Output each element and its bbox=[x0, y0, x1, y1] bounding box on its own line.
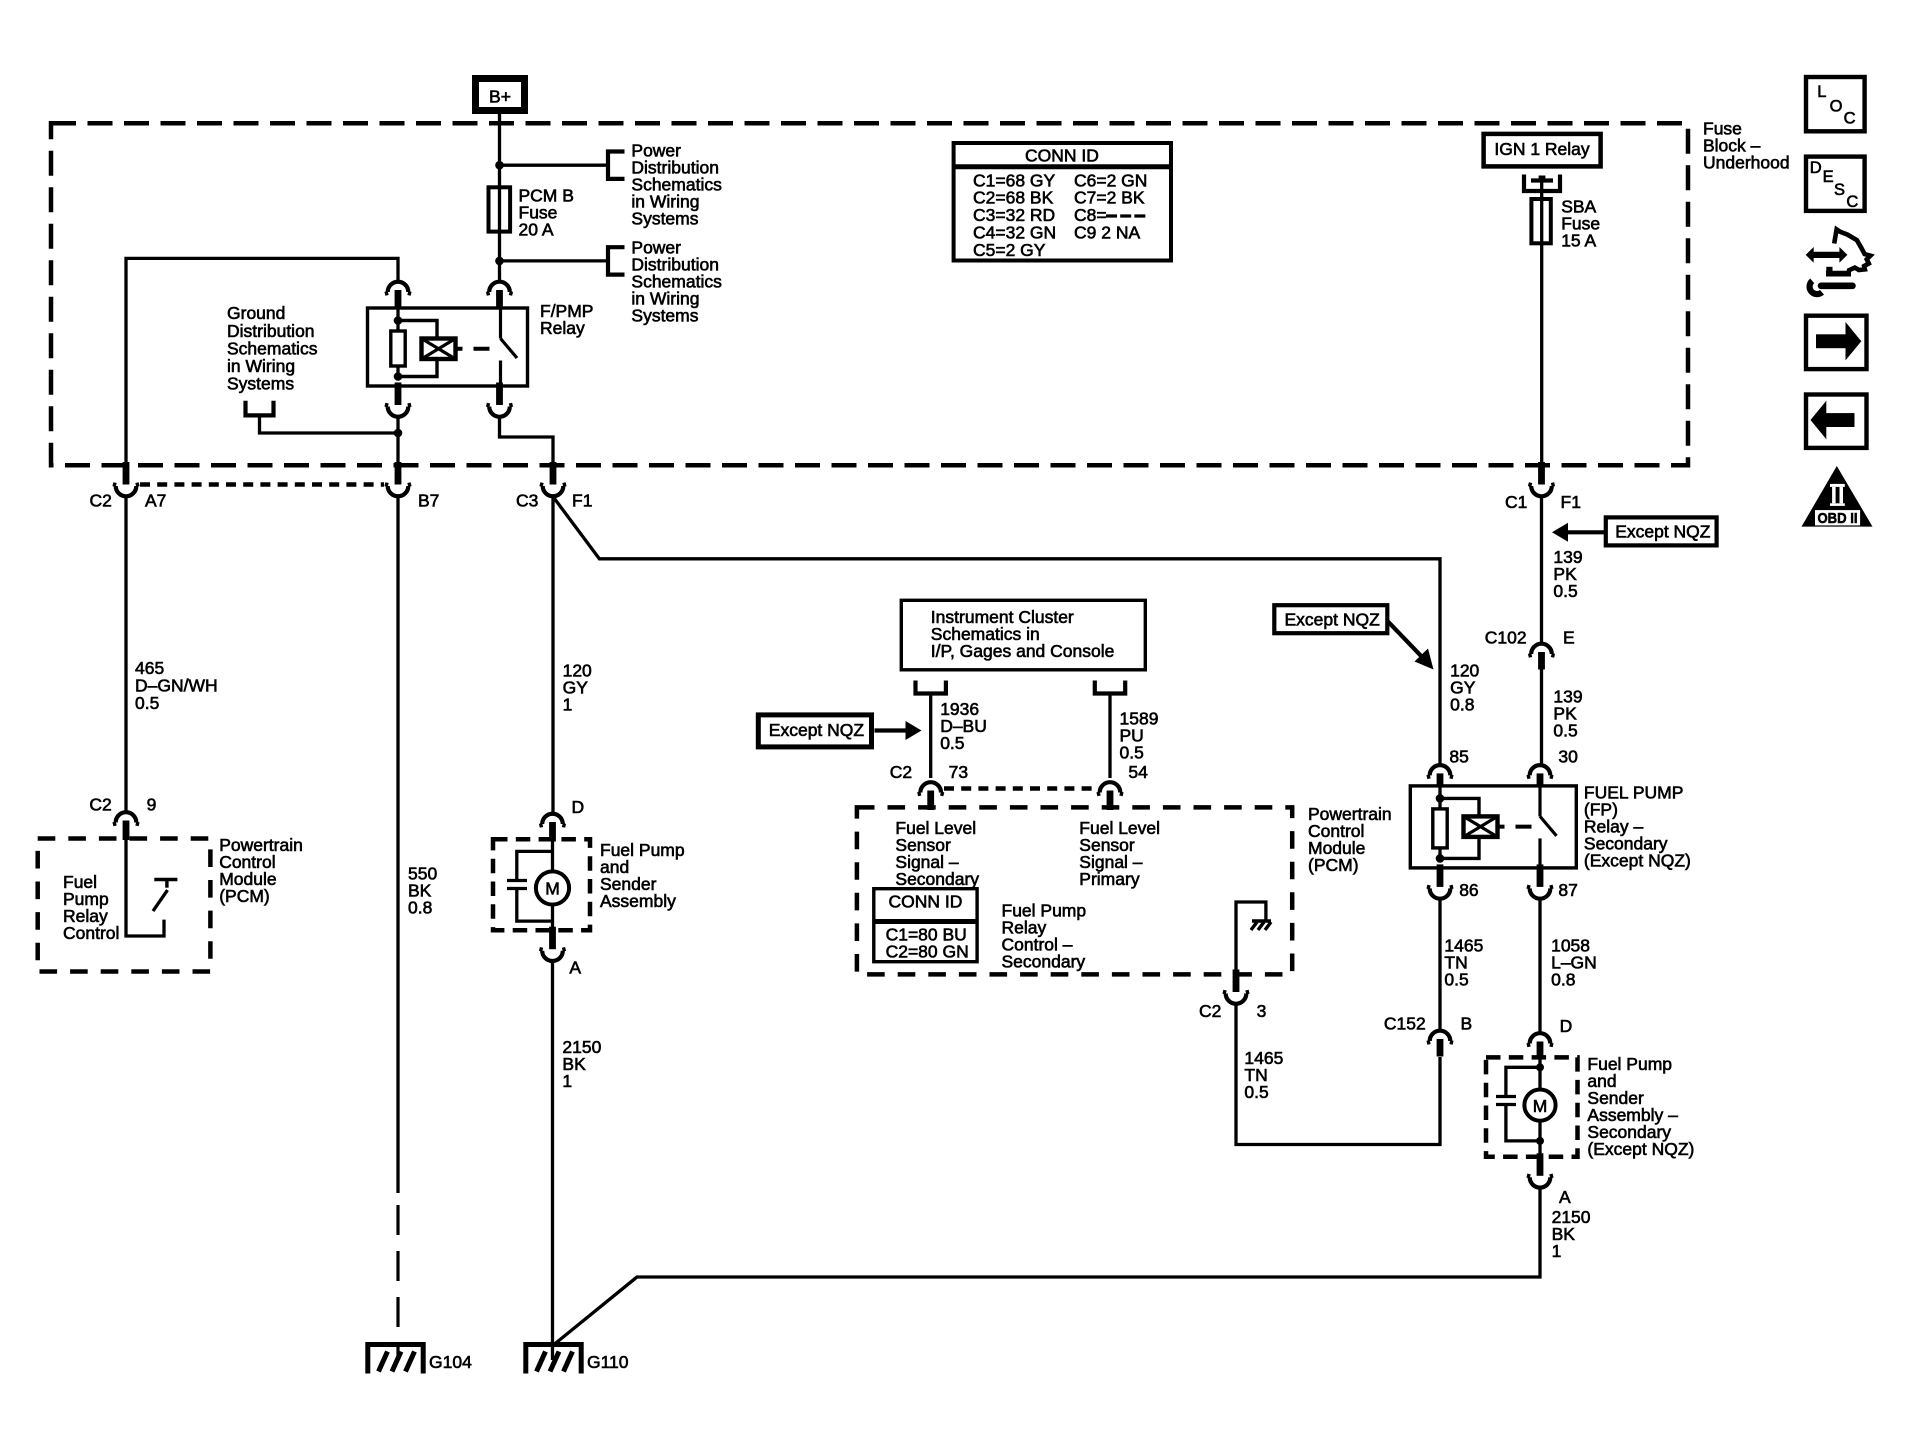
svg-text:E: E bbox=[1563, 627, 1575, 647]
svg-text:73: 73 bbox=[949, 762, 968, 782]
fuse block - underhood dashed boundary box bbox=[51, 123, 1688, 465]
wire relay switch to C3/F1 bbox=[500, 418, 554, 463]
svg-text:15 A: 15 A bbox=[1561, 231, 1596, 251]
bracket ground distribution reference bbox=[246, 401, 274, 416]
connector pin into F/PMP relay (switch) bbox=[489, 282, 510, 292]
svg-text:C1: C1 bbox=[1505, 492, 1527, 512]
node junction to power distribution (upper) bbox=[495, 161, 504, 170]
wire diagonal C3/F1 to secondary feed bbox=[554, 498, 1440, 764]
svg-text:0.5: 0.5 bbox=[1244, 1082, 1268, 1102]
arrow except NQZ to 1936 wire bbox=[875, 728, 909, 732]
svg-text:(Except NQZ): (Except NQZ) bbox=[1587, 1139, 1694, 1159]
ground G110 bbox=[526, 1345, 581, 1374]
connector C3 F1 bbox=[550, 462, 557, 485]
arrow except NQZ to 139 wire bbox=[1565, 530, 1606, 534]
svg-text:9: 9 bbox=[147, 794, 157, 814]
connector D into fuel pump assembly bbox=[542, 814, 563, 824]
svg-text:Relay: Relay bbox=[540, 318, 585, 338]
svg-text:Systems: Systems bbox=[631, 208, 698, 228]
fuel pump and sender assembly dashed box bbox=[493, 839, 590, 930]
svg-text:3: 3 bbox=[1257, 1001, 1267, 1021]
svg-text:(Except NQZ): (Except NQZ) bbox=[1584, 851, 1691, 871]
relay FUEL PUMP (FP) secondary bbox=[1410, 786, 1576, 868]
connector C2 73 into fuel level sensor box bbox=[920, 782, 941, 792]
PCM internal switch blade bbox=[153, 890, 168, 911]
fuse holder bracket below IGN 1 relay bbox=[1524, 175, 1560, 192]
svg-text:C: C bbox=[1846, 193, 1858, 211]
svg-text:B: B bbox=[1461, 1013, 1473, 1033]
node junction to power distribution (lower) bbox=[495, 257, 504, 266]
svg-text:S: S bbox=[1834, 181, 1845, 199]
svg-text:0.5: 0.5 bbox=[940, 733, 964, 753]
PCM internal switch contact T-bar bbox=[154, 878, 177, 881]
svg-text:D: D bbox=[1810, 159, 1822, 177]
svg-text:C5=2 GY: C5=2 GY bbox=[973, 240, 1046, 260]
svg-text:(PCM): (PCM) bbox=[1308, 855, 1359, 875]
svg-text:Except NQZ: Except NQZ bbox=[1285, 610, 1381, 630]
wire 1465 TN to C152 bbox=[1236, 1005, 1440, 1145]
secondary fuel pump motor M bbox=[1524, 1090, 1555, 1121]
svg-text:OBD II: OBD II bbox=[1818, 510, 1858, 527]
PCM internal switch wire bbox=[126, 840, 164, 937]
wire 550 BK bbox=[396, 497, 399, 1193]
connector below relay coil bbox=[395, 383, 402, 406]
svg-text:IGN 1 Relay: IGN 1 Relay bbox=[1494, 139, 1590, 159]
svg-text:0.8: 0.8 bbox=[1450, 694, 1474, 714]
svg-text:C2: C2 bbox=[890, 762, 912, 782]
svg-text:F1: F1 bbox=[572, 491, 592, 511]
connector C102 E bbox=[1531, 644, 1552, 654]
fuse SBA 15 A bbox=[1540, 181, 1543, 200]
bracket instrument cluster right bbox=[1095, 681, 1125, 694]
svg-text:B+: B+ bbox=[489, 86, 511, 106]
svg-text:87: 87 bbox=[1558, 880, 1577, 900]
svg-text:G110: G110 bbox=[587, 1352, 629, 1372]
fuse PCM B 20 A bbox=[489, 187, 511, 231]
svg-text:C3: C3 bbox=[516, 491, 538, 511]
PCM dashed box (fuel level sensor signals) bbox=[857, 807, 1292, 974]
svg-text:0.5: 0.5 bbox=[1553, 581, 1577, 601]
wire 1465 TN (pin 86) to C152 B bbox=[1438, 900, 1441, 1030]
node junction with ground distribution branch bbox=[394, 429, 403, 438]
PCM dashed box (fuel pump relay control) bbox=[38, 839, 211, 972]
svg-text:20 A: 20 A bbox=[519, 220, 554, 240]
connector C2 B7 bbox=[395, 462, 402, 485]
svg-text:G104: G104 bbox=[429, 1352, 472, 1372]
connector C152 B bbox=[1430, 1031, 1451, 1041]
connector pin 86 side into F/PMP relay (coil) bbox=[388, 282, 409, 292]
wire 2150 BK secondary bbox=[554, 1188, 1540, 1345]
wire 1936 D-BU bbox=[929, 694, 932, 779]
wire SBA fuse to C1/F1 bbox=[1540, 243, 1543, 462]
svg-text:CONN ID: CONN ID bbox=[889, 891, 963, 911]
svg-text:E: E bbox=[1823, 168, 1834, 186]
fuel pump capacitor branch bbox=[517, 851, 553, 879]
wire 139 PK lower bbox=[1540, 670, 1543, 765]
secondary motor wire bottom bbox=[1538, 1121, 1541, 1158]
svg-text:0.8: 0.8 bbox=[1551, 970, 1575, 990]
wire relay coil to B7 bbox=[396, 418, 399, 463]
wire to power distribution reference (upper) bbox=[500, 164, 609, 167]
svg-text:B7: B7 bbox=[418, 491, 439, 511]
svg-text:Secondary: Secondary bbox=[895, 869, 979, 889]
wire 465 D-GN/WH bbox=[124, 497, 127, 811]
wire 2150 BK to G110 bbox=[551, 962, 554, 1361]
svg-text:O: O bbox=[1830, 98, 1843, 116]
svg-text:1: 1 bbox=[1552, 1241, 1562, 1261]
off-page reference bracket power distribution (upper) bbox=[608, 152, 625, 179]
IGN 1 relay box bbox=[1484, 134, 1601, 167]
svg-text:Primary: Primary bbox=[1079, 869, 1140, 889]
svg-text:A7: A7 bbox=[145, 491, 166, 511]
connector A below secondary fuel pump bbox=[1537, 1153, 1544, 1176]
fuel pump motor wire top bbox=[551, 840, 554, 872]
svg-text:C2: C2 bbox=[89, 794, 111, 814]
conn id table underhood bbox=[954, 143, 1171, 261]
except NQZ callout box (C1/F1) bbox=[1606, 517, 1717, 545]
svg-text:D: D bbox=[572, 797, 585, 817]
wire to power distribution reference (lower) bbox=[500, 259, 609, 262]
svg-text:C2: C2 bbox=[1199, 1001, 1221, 1021]
svg-text:0.5: 0.5 bbox=[1553, 721, 1577, 741]
svg-text:Secondary: Secondary bbox=[1002, 951, 1086, 971]
svg-text:85: 85 bbox=[1449, 746, 1468, 766]
svg-text:54: 54 bbox=[1128, 762, 1148, 782]
svg-text:Except NQZ: Except NQZ bbox=[1615, 521, 1711, 541]
conn id table (80-way) bbox=[874, 889, 977, 962]
except NQZ callout box (cluster) bbox=[758, 715, 871, 747]
arrow except NQZ to 120 GY wire bbox=[1387, 621, 1424, 659]
svg-text:30: 30 bbox=[1558, 746, 1578, 766]
svg-text:I/P, Gages and Console: I/P, Gages and Console bbox=[931, 641, 1115, 661]
connector D into secondary fuel pump bbox=[1530, 1033, 1551, 1043]
connector C2 pin 9 into PCM bbox=[116, 812, 137, 822]
connector 86 below FP relay bbox=[1437, 864, 1444, 887]
svg-text:0.5: 0.5 bbox=[1444, 970, 1468, 990]
svg-text:Except NQZ: Except NQZ bbox=[769, 720, 865, 740]
wire 1589 PU bbox=[1108, 694, 1111, 779]
wire 120 GY 1 down bbox=[551, 497, 554, 813]
dotted link 73-54 same connector bbox=[944, 786, 1097, 791]
svg-text:C152: C152 bbox=[1384, 1013, 1426, 1033]
secondary fuel pump dashed box bbox=[1486, 1057, 1578, 1156]
svg-text:CONN ID: CONN ID bbox=[1025, 145, 1099, 165]
svg-text:1: 1 bbox=[562, 1071, 572, 1091]
wire 1058 L-GN (pin 87) to D bbox=[1538, 900, 1541, 1034]
icon diagnostic connector outline bbox=[1834, 229, 1870, 273]
icon DESC box bbox=[1806, 157, 1865, 211]
svg-text:Assembly: Assembly bbox=[600, 891, 676, 911]
off-page reference bracket power distribution (lower) bbox=[608, 247, 625, 274]
icon LOC box bbox=[1806, 77, 1865, 131]
svg-text:Underhood: Underhood bbox=[1703, 152, 1790, 172]
svg-text:M: M bbox=[1533, 1096, 1548, 1116]
icon back arrow box bbox=[1806, 395, 1867, 448]
svg-text:1: 1 bbox=[563, 694, 573, 714]
PCM internal ground (relay control secondary) bbox=[1236, 902, 1266, 973]
svg-text:Systems: Systems bbox=[631, 306, 698, 326]
icon diagnostic mid bar bbox=[1826, 271, 1851, 277]
svg-text:86: 86 bbox=[1459, 880, 1478, 900]
icon forward arrow box bbox=[1806, 316, 1867, 369]
ground G104 bbox=[368, 1345, 423, 1374]
wire 550 BK dashed segment bbox=[396, 1205, 399, 1360]
svg-text:0.8: 0.8 bbox=[408, 898, 432, 918]
icon diagnostic double arrow bbox=[1806, 247, 1814, 263]
svg-text:C2: C2 bbox=[90, 491, 112, 511]
connector 30 into FP relay bbox=[1530, 765, 1551, 775]
wire relay coil feed from A7 branch bbox=[126, 258, 398, 462]
connector C1 F1 bbox=[1538, 462, 1545, 485]
svg-text:(PCM): (PCM) bbox=[219, 886, 270, 906]
dotted link A7-B7 same connector bbox=[140, 482, 384, 487]
fuel pump motor wire bottom bbox=[551, 905, 554, 931]
svg-text:C9 2 NA: C9 2 NA bbox=[1074, 223, 1140, 243]
fuel pump motor M bbox=[536, 871, 569, 904]
bracket instrument cluster left bbox=[916, 681, 946, 694]
icon wrench bbox=[1810, 281, 1822, 294]
connector below relay switch bbox=[496, 383, 503, 406]
wire ground distribution to junction bbox=[260, 415, 399, 433]
wire B+ down to PCM B fuse bbox=[498, 114, 501, 188]
svg-text:L: L bbox=[1817, 83, 1826, 101]
svg-text:Control: Control bbox=[63, 923, 119, 943]
svg-text:M: M bbox=[545, 878, 560, 898]
battery feed B+ box bbox=[476, 79, 525, 111]
svg-text:F1: F1 bbox=[1561, 492, 1581, 512]
secondary motor wire top bbox=[1538, 1058, 1541, 1090]
except NQZ callout box (secondary relay) bbox=[1274, 605, 1387, 633]
svg-text:A: A bbox=[1559, 1187, 1571, 1207]
icon OBD II triangle bbox=[1802, 466, 1873, 527]
svg-text:A: A bbox=[569, 957, 581, 977]
connector C2 A7 bbox=[123, 462, 130, 485]
svg-text:0.5: 0.5 bbox=[1120, 742, 1144, 762]
svg-text:C: C bbox=[1844, 109, 1856, 127]
secondary capacitor branch bbox=[1536, 1063, 1544, 1071]
wire 139 PK upper bbox=[1540, 497, 1543, 643]
svg-text:D: D bbox=[1560, 1016, 1573, 1036]
svg-text:Systems: Systems bbox=[227, 374, 294, 394]
wire fuse to relay bbox=[498, 232, 501, 281]
svg-text:C102: C102 bbox=[1485, 627, 1527, 647]
connector 85 into FP relay bbox=[1430, 765, 1451, 775]
relay F/PMP bbox=[368, 308, 528, 386]
svg-text:0.5: 0.5 bbox=[135, 693, 159, 713]
connector 87 below FP relay bbox=[1537, 864, 1544, 887]
connector A below fuel pump bbox=[549, 927, 556, 950]
instrument cluster box bbox=[901, 600, 1145, 670]
connector 54 into fuel level sensor box bbox=[1100, 782, 1121, 792]
connector C2 3 below PCM box bbox=[1233, 970, 1240, 993]
svg-text:C2=80 GN: C2=80 GN bbox=[886, 941, 969, 961]
